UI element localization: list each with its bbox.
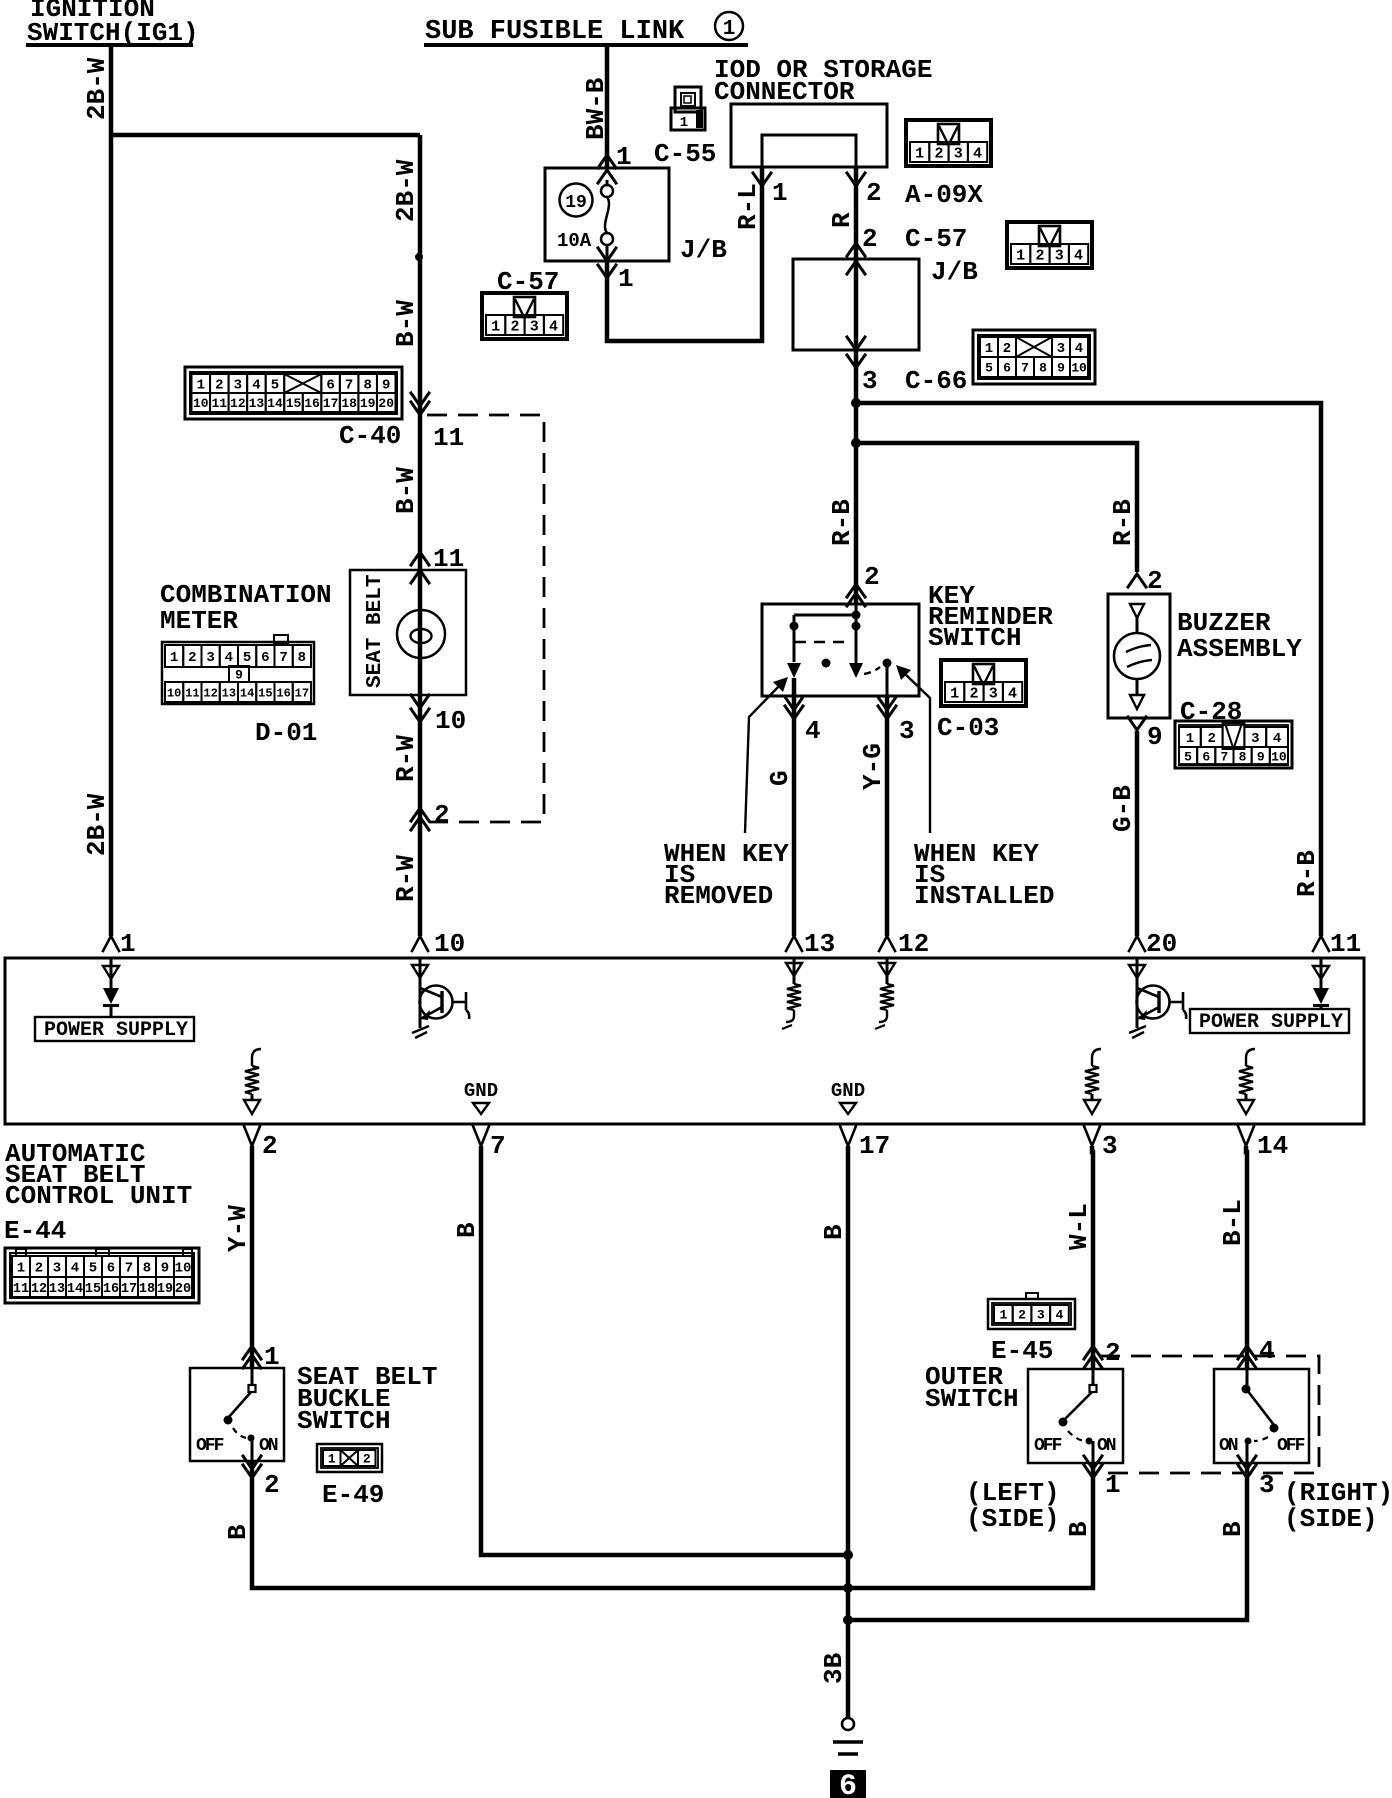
connector C-40 pin 11 double chevron	[411, 393, 464, 453]
svg-text:R-W: R-W	[391, 855, 421, 902]
label B (pin 7)	[452, 1222, 482, 1238]
wire Y-G to pin 12	[885, 696, 890, 936]
automatic seat belt control unit box	[5, 958, 1364, 1124]
svg-text:3: 3	[234, 378, 242, 394]
shield ground reference 6	[830, 1770, 866, 1798]
svg-text:19: 19	[565, 193, 587, 213]
svg-text:7: 7	[1221, 750, 1229, 765]
wire pin 7 ground	[481, 1146, 848, 1555]
wire R-B to far right (pin 11)	[851, 398, 861, 408]
pin 2 exit chevron	[244, 1126, 278, 1161]
label G	[765, 770, 795, 786]
label Y-G	[858, 743, 888, 790]
svg-text:3: 3	[1259, 1470, 1275, 1500]
svg-text:1: 1	[1016, 247, 1025, 264]
svg-text:B: B	[1218, 1521, 1248, 1537]
svg-text:11: 11	[1330, 929, 1361, 959]
svg-text:10: 10	[434, 929, 465, 959]
svg-text:2: 2	[262, 1131, 278, 1161]
svg-text:2: 2	[35, 1261, 43, 1277]
svg-text:17: 17	[121, 1282, 137, 1297]
svg-text:20: 20	[1146, 929, 1177, 959]
svg-text:10: 10	[167, 686, 181, 700]
svg-text:1: 1	[170, 650, 178, 666]
svg-text:C-57: C-57	[905, 224, 967, 254]
svg-text:11: 11	[433, 423, 464, 453]
svg-text:W-L: W-L	[1064, 1203, 1094, 1250]
connector icon C-03	[941, 660, 1026, 706]
svg-text:19: 19	[157, 1282, 173, 1297]
resistor R2 at pin 12	[875, 958, 895, 1029]
svg-text:14: 14	[267, 396, 283, 411]
svg-text:Y-W: Y-W	[223, 1205, 253, 1252]
fixed contact (center)	[849, 663, 863, 678]
svg-text:4: 4	[225, 650, 233, 666]
svg-text:12: 12	[203, 686, 217, 700]
svg-text:16: 16	[103, 1282, 119, 1297]
svg-text:4: 4	[973, 145, 982, 162]
svg-text:10: 10	[1271, 750, 1287, 765]
wire B-L pin14 to right outer switch	[1246, 1146, 1247, 1369]
connector icon C-66 (10 pin)	[973, 330, 1095, 384]
label B (buckle ground)	[223, 1524, 253, 1540]
svg-text:INSTALLED: INSTALLED	[914, 881, 1054, 911]
svg-text:8: 8	[143, 1261, 151, 1277]
svg-text:18: 18	[341, 396, 357, 411]
svg-text:1: 1	[1105, 1470, 1121, 1500]
svg-text:1: 1	[999, 1308, 1007, 1323]
key reminder switch box	[762, 604, 919, 696]
label B (left switch)	[1064, 1521, 1094, 1537]
C-03 pin 3 double chevron	[878, 697, 915, 746]
svg-text:METER: METER	[160, 606, 238, 636]
svg-text:R-B: R-B	[1292, 850, 1322, 897]
pin 1 entry chevron	[103, 929, 136, 959]
svg-text:C-55: C-55	[654, 139, 716, 169]
svg-text:9: 9	[235, 668, 243, 683]
fixed contact (key removed side)	[787, 663, 801, 678]
wire R from IOD pin 2 down	[854, 167, 859, 604]
svg-text:2: 2	[1207, 731, 1215, 747]
node BUZZER ASSEMBLY label	[1177, 608, 1302, 664]
dashed enclosure around outer switches	[1100, 1356, 1319, 1473]
svg-text:4: 4	[549, 318, 558, 335]
connector D-01 pin 10 chevron	[411, 706, 466, 736]
junction pin7/pin17	[843, 1550, 853, 1560]
junction block J/B with fuse 19	[545, 168, 669, 261]
svg-text:14: 14	[240, 686, 254, 700]
svg-text:11: 11	[185, 686, 199, 700]
svg-text:16: 16	[304, 396, 320, 411]
label R-W lower	[391, 855, 421, 902]
svg-text:C-66: C-66	[905, 366, 967, 396]
svg-text:16: 16	[276, 686, 290, 700]
svg-text:10: 10	[435, 706, 466, 736]
svg-text:10: 10	[193, 396, 209, 411]
svg-text:GND: GND	[831, 1080, 865, 1102]
label R-W	[391, 735, 421, 782]
connector C-55 pin 1 chevron	[598, 142, 632, 172]
node IOD OR STORAGE CONNECTOR label	[714, 55, 932, 107]
svg-text:14: 14	[1257, 1131, 1288, 1161]
node SUB FUSIBLE LINK label	[424, 12, 748, 47]
svg-text:7: 7	[345, 378, 353, 394]
svg-text:2: 2	[510, 318, 519, 335]
svg-text:J/B: J/B	[680, 235, 727, 265]
svg-text:1: 1	[328, 1452, 336, 1467]
svg-text:E-49: E-49	[322, 1480, 384, 1510]
wire branch to combination meter	[111, 133, 420, 138]
leader when key is installed	[896, 665, 930, 833]
svg-text:3: 3	[1055, 247, 1064, 264]
svg-text:2: 2	[864, 562, 880, 592]
transistor Q1 at pin 10	[412, 958, 469, 1038]
label Y-W	[223, 1205, 253, 1252]
IOD pin 2 chevron	[847, 173, 882, 208]
connector icon A-09X	[906, 120, 991, 166]
svg-text:R: R	[827, 212, 857, 228]
dashed bypass link pin11 to pin2	[427, 415, 544, 822]
diode D1 at pin 1	[103, 958, 119, 1018]
label R-B (key reminder feed)	[827, 499, 857, 546]
leader when key is removed	[745, 677, 788, 833]
svg-text:4: 4	[805, 716, 821, 746]
svg-text:4: 4	[71, 1261, 79, 1277]
svg-text:13: 13	[222, 686, 236, 700]
node WHEN KEY IS INSTALLED	[914, 839, 1054, 911]
svg-text:SUB FUSIBLE LINK: SUB FUSIBLE LINK	[425, 17, 685, 47]
svg-text:5: 5	[89, 1261, 97, 1277]
svg-text:2: 2	[969, 685, 978, 702]
svg-text:2B-W: 2B-W	[82, 57, 112, 120]
node KEY REMINDER SWITCH label	[928, 581, 1053, 653]
svg-text:2: 2	[1035, 247, 1044, 264]
svg-text:B-W: B-W	[391, 300, 421, 347]
svg-text:1: 1	[723, 18, 736, 41]
svg-text:20: 20	[175, 1282, 191, 1297]
svg-text:2: 2	[264, 1470, 280, 1500]
svg-text:ON: ON	[1097, 1436, 1116, 1456]
node SEAT BELT BUCKLE SWITCH label	[297, 1362, 437, 1436]
svg-text:8: 8	[1239, 750, 1247, 765]
movable contact dashed	[795, 641, 850, 643]
svg-text:11: 11	[212, 396, 228, 411]
label 2B-W on branch	[391, 159, 421, 222]
wire Y-W pin2 to buckle switch	[250, 1146, 255, 1368]
svg-text:5: 5	[1184, 750, 1192, 765]
svg-text:2: 2	[1003, 341, 1011, 357]
svg-text:R-B: R-B	[1108, 499, 1138, 546]
junction blob	[415, 253, 423, 261]
svg-text:12: 12	[230, 396, 246, 411]
svg-text:REMOVED: REMOVED	[664, 881, 773, 911]
E-45 pin 1 double chevron	[1084, 1456, 1121, 1500]
svg-text:2: 2	[215, 378, 223, 394]
svg-text:6: 6	[261, 650, 269, 666]
connector icon C-57 right	[1007, 222, 1092, 268]
label R-B (buzzer feed)	[1108, 499, 1138, 546]
svg-text:2B-W: 2B-W	[391, 159, 421, 222]
svg-text:4: 4	[1259, 1336, 1275, 1366]
svg-text:2: 2	[1105, 1338, 1121, 1368]
connector C-40 (20 pin)	[185, 367, 402, 419]
connector C-03 pin 2 double chevron	[847, 562, 880, 606]
svg-text:(SIDE): (SIDE)	[966, 1504, 1060, 1534]
resistor R5 to pin 14	[1238, 1049, 1255, 1114]
node OUTER SWITCH label	[925, 1362, 1019, 1414]
E-49 pin 2 double chevron	[243, 1456, 280, 1500]
svg-text:17: 17	[859, 1131, 890, 1161]
svg-text:8: 8	[298, 650, 306, 666]
svg-text:15: 15	[286, 396, 302, 411]
pin 3 exit chevron	[1084, 1126, 1118, 1161]
svg-text:B: B	[1064, 1521, 1094, 1537]
svg-text:1: 1	[985, 341, 993, 357]
svg-text:13: 13	[49, 1282, 65, 1297]
label B (pin 17)	[819, 1224, 849, 1240]
svg-text:1: 1	[680, 115, 688, 131]
label 3B	[819, 1652, 849, 1684]
lamp bulb	[397, 610, 445, 658]
svg-text:1: 1	[915, 145, 924, 162]
svg-text:1: 1	[197, 378, 205, 394]
svg-text:2: 2	[866, 178, 882, 208]
wire to right outer switch ground	[848, 1463, 1247, 1620]
svg-text:2: 2	[188, 650, 196, 666]
node COMBINATION METER label	[160, 580, 332, 636]
svg-text:17: 17	[323, 396, 339, 411]
pin 14 exit chevron	[1238, 1126, 1288, 1161]
connector pin 2 double chevron	[411, 800, 450, 830]
svg-text:1: 1	[1186, 731, 1194, 747]
pin 10 entry chevron	[412, 929, 465, 959]
label BW-B	[581, 77, 611, 140]
svg-text:14: 14	[67, 1282, 83, 1297]
svg-text:7: 7	[1021, 361, 1029, 376]
svg-text:13: 13	[804, 929, 835, 959]
label W-L	[1064, 1203, 1094, 1250]
svg-text:3: 3	[53, 1261, 61, 1277]
svg-text:2: 2	[363, 1452, 371, 1467]
E-45 pin 2 double chevron	[1084, 1338, 1121, 1368]
C-03 pin 4 double chevron	[785, 697, 821, 746]
svg-text:3B: 3B	[819, 1652, 849, 1684]
wire buckle switch ground to left outer switch	[252, 1461, 1093, 1588]
svg-text:J/B: J/B	[931, 257, 978, 287]
svg-text:9: 9	[1147, 722, 1163, 752]
svg-text:SWITCH: SWITCH	[928, 623, 1022, 653]
svg-text:3: 3	[899, 716, 915, 746]
svg-text:10: 10	[1071, 361, 1087, 376]
svg-text:POWER SUPPLY: POWER SUPPLY	[44, 1019, 188, 1042]
svg-text:9: 9	[1057, 361, 1065, 376]
connector C-66 pin 3 chevron	[847, 355, 967, 396]
svg-text:12: 12	[898, 929, 929, 959]
svg-text:4: 4	[1074, 247, 1083, 264]
svg-text:3: 3	[989, 685, 998, 702]
junction right switch/trunk	[843, 1615, 853, 1625]
label R	[827, 212, 857, 228]
svg-text:1: 1	[618, 264, 634, 294]
svg-text:ON: ON	[259, 1436, 278, 1456]
svg-text:4: 4	[1056, 1308, 1064, 1323]
connector D-01 (17 pin)	[162, 635, 314, 704]
connector icon E-49	[317, 1444, 382, 1472]
wire G to pin 13	[792, 678, 797, 936]
IOD pin 1 chevron	[753, 173, 788, 208]
svg-text:2: 2	[934, 145, 943, 162]
svg-text:13: 13	[249, 396, 265, 411]
svg-text:OFF: OFF	[196, 1436, 224, 1456]
junction block J/B 2	[793, 259, 919, 350]
pin 20 entry chevron	[1129, 929, 1177, 959]
outer switch left box	[1028, 1369, 1123, 1463]
svg-text:1: 1	[17, 1261, 25, 1277]
buzzer assembly box	[1108, 594, 1170, 718]
POWER SUPPLY label (right)	[1190, 1009, 1349, 1034]
connector icon C-28 (10 pin)	[1175, 721, 1292, 768]
node WHEN KEY IS REMOVED	[664, 839, 789, 911]
pin 12 entry chevron	[879, 929, 929, 959]
buzzer symbol	[1114, 633, 1160, 679]
connector C-28 pin 2 chevron	[1128, 566, 1163, 596]
svg-text:1: 1	[120, 929, 136, 959]
connector D-01 pin 11 chevron	[411, 544, 464, 574]
svg-text:R-W: R-W	[391, 735, 421, 782]
svg-text:7: 7	[490, 1131, 506, 1161]
IOD or storage connector box	[731, 104, 887, 167]
svg-text:G: G	[765, 770, 795, 786]
svg-text:11: 11	[13, 1282, 29, 1297]
svg-text:A-09X: A-09X	[905, 180, 983, 210]
svg-text:6: 6	[1202, 750, 1210, 765]
connector icon C-57 left	[482, 293, 567, 339]
junction buckle/pin17	[843, 1583, 853, 1593]
svg-text:GND: GND	[464, 1080, 498, 1102]
svg-text:2B-W: 2B-W	[82, 793, 112, 856]
resistor R3 to pin 2	[244, 1049, 261, 1114]
label R-B (far right)	[1292, 850, 1322, 897]
resistor R1 at pin 13	[782, 958, 802, 1029]
svg-text:3: 3	[530, 318, 539, 335]
svg-text:Y-G: Y-G	[858, 743, 888, 790]
E-45 pin 4 double chevron	[1238, 1336, 1275, 1368]
svg-text:7: 7	[279, 650, 287, 666]
svg-text:OFF: OFF	[1034, 1436, 1062, 1456]
svg-text:8: 8	[1039, 361, 1047, 376]
wire W-L pin3 to left outer switch	[1092, 1146, 1093, 1369]
POWER SUPPLY label (left)	[35, 1017, 194, 1042]
connector icon E-45	[988, 1293, 1075, 1329]
svg-text:(SIDE): (SIDE)	[1284, 1504, 1378, 1534]
svg-text:4: 4	[1273, 731, 1281, 747]
label B (right switch)	[1218, 1521, 1248, 1537]
label B-L	[1218, 1199, 1248, 1246]
node AUTOMATIC SEAT BELT CONTROL UNIT label	[5, 1139, 192, 1211]
svg-text:BW-B: BW-B	[581, 77, 611, 140]
seat belt buckle switch box	[190, 1368, 284, 1461]
svg-text:C-40: C-40	[339, 421, 401, 451]
GND symbol pin 7	[464, 1080, 498, 1114]
svg-text:7: 7	[125, 1261, 133, 1277]
node RIGHT SIDE	[1284, 1478, 1392, 1534]
svg-text:3: 3	[1102, 1131, 1118, 1161]
J/B output pin 1 chevron	[598, 264, 634, 294]
svg-text:6: 6	[839, 1770, 857, 1798]
svg-text:3: 3	[206, 650, 214, 666]
wire BW-B	[605, 47, 610, 168]
svg-text:B-W: B-W	[391, 467, 421, 514]
connector C-57 pin 2 chevron (inline)	[847, 224, 967, 256]
pin 13 entry chevron	[786, 929, 835, 959]
svg-text:19: 19	[360, 396, 376, 411]
svg-text:C-03: C-03	[937, 713, 999, 743]
svg-text:4: 4	[1008, 685, 1017, 702]
svg-text:20: 20	[378, 396, 394, 411]
svg-text:B: B	[819, 1224, 849, 1240]
transistor Q2 at pin 20	[1129, 958, 1186, 1038]
svg-text:15: 15	[258, 686, 272, 700]
label R-L	[733, 183, 763, 230]
svg-text:4: 4	[252, 378, 260, 394]
svg-text:1: 1	[950, 685, 959, 702]
svg-text:SEAT BELT: SEAT BELT	[364, 575, 387, 688]
outer switch right box	[1214, 1369, 1309, 1463]
svg-text:17: 17	[295, 686, 309, 700]
svg-text:2: 2	[862, 224, 878, 254]
svg-text:2: 2	[434, 800, 450, 830]
wire J/B to IOD connector pin 1	[607, 167, 762, 341]
svg-text:B-L: B-L	[1218, 1199, 1248, 1246]
E-45 pin 3 double chevron	[1238, 1456, 1275, 1500]
svg-text:1: 1	[491, 318, 500, 335]
pin 17 exit chevron	[840, 1126, 890, 1161]
fuse 19 10A	[606, 180, 609, 186]
svg-text:6: 6	[1003, 361, 1011, 376]
svg-text:12: 12	[31, 1282, 47, 1297]
node IGNITION SWITCH(IG1) label	[26, 0, 199, 48]
seat belt warning lamp box	[350, 570, 466, 708]
svg-text:SWITCH: SWITCH	[297, 1406, 391, 1436]
svg-text:3: 3	[1251, 731, 1259, 747]
svg-text:E-44: E-44	[4, 1216, 66, 1246]
svg-text:6: 6	[107, 1261, 115, 1277]
svg-text:5: 5	[985, 361, 993, 376]
svg-text:ASSEMBLY: ASSEMBLY	[1177, 634, 1302, 664]
svg-text:B: B	[223, 1524, 253, 1540]
svg-text:10A: 10A	[557, 230, 592, 252]
svg-text:9: 9	[1257, 750, 1265, 765]
node LEFT SIDE	[966, 1478, 1060, 1534]
wire pin 17 ground trunk	[846, 1146, 851, 1718]
svg-text:5: 5	[271, 378, 279, 394]
svg-text:18: 18	[139, 1282, 155, 1297]
svg-text:10: 10	[175, 1261, 192, 1277]
diode D2 at pin 11	[1313, 958, 1329, 1010]
label B-W above seat belt lamp	[391, 467, 421, 514]
pin 11 entry chevron	[1313, 929, 1361, 959]
connector icon E-44 (20 pin)	[5, 1248, 199, 1303]
resistor R4 to pin 3	[1084, 1049, 1101, 1114]
svg-text:G-B: G-B	[1108, 785, 1138, 832]
svg-text:5: 5	[243, 650, 251, 666]
C-28 pin 9 chevron	[1128, 717, 1163, 752]
svg-text:3: 3	[1057, 341, 1065, 357]
connector E-49 pin 1 double chevron	[243, 1342, 280, 1372]
svg-text:3: 3	[1037, 1308, 1045, 1323]
GND symbol pin 17	[831, 1080, 865, 1114]
svg-text:8: 8	[363, 378, 371, 394]
